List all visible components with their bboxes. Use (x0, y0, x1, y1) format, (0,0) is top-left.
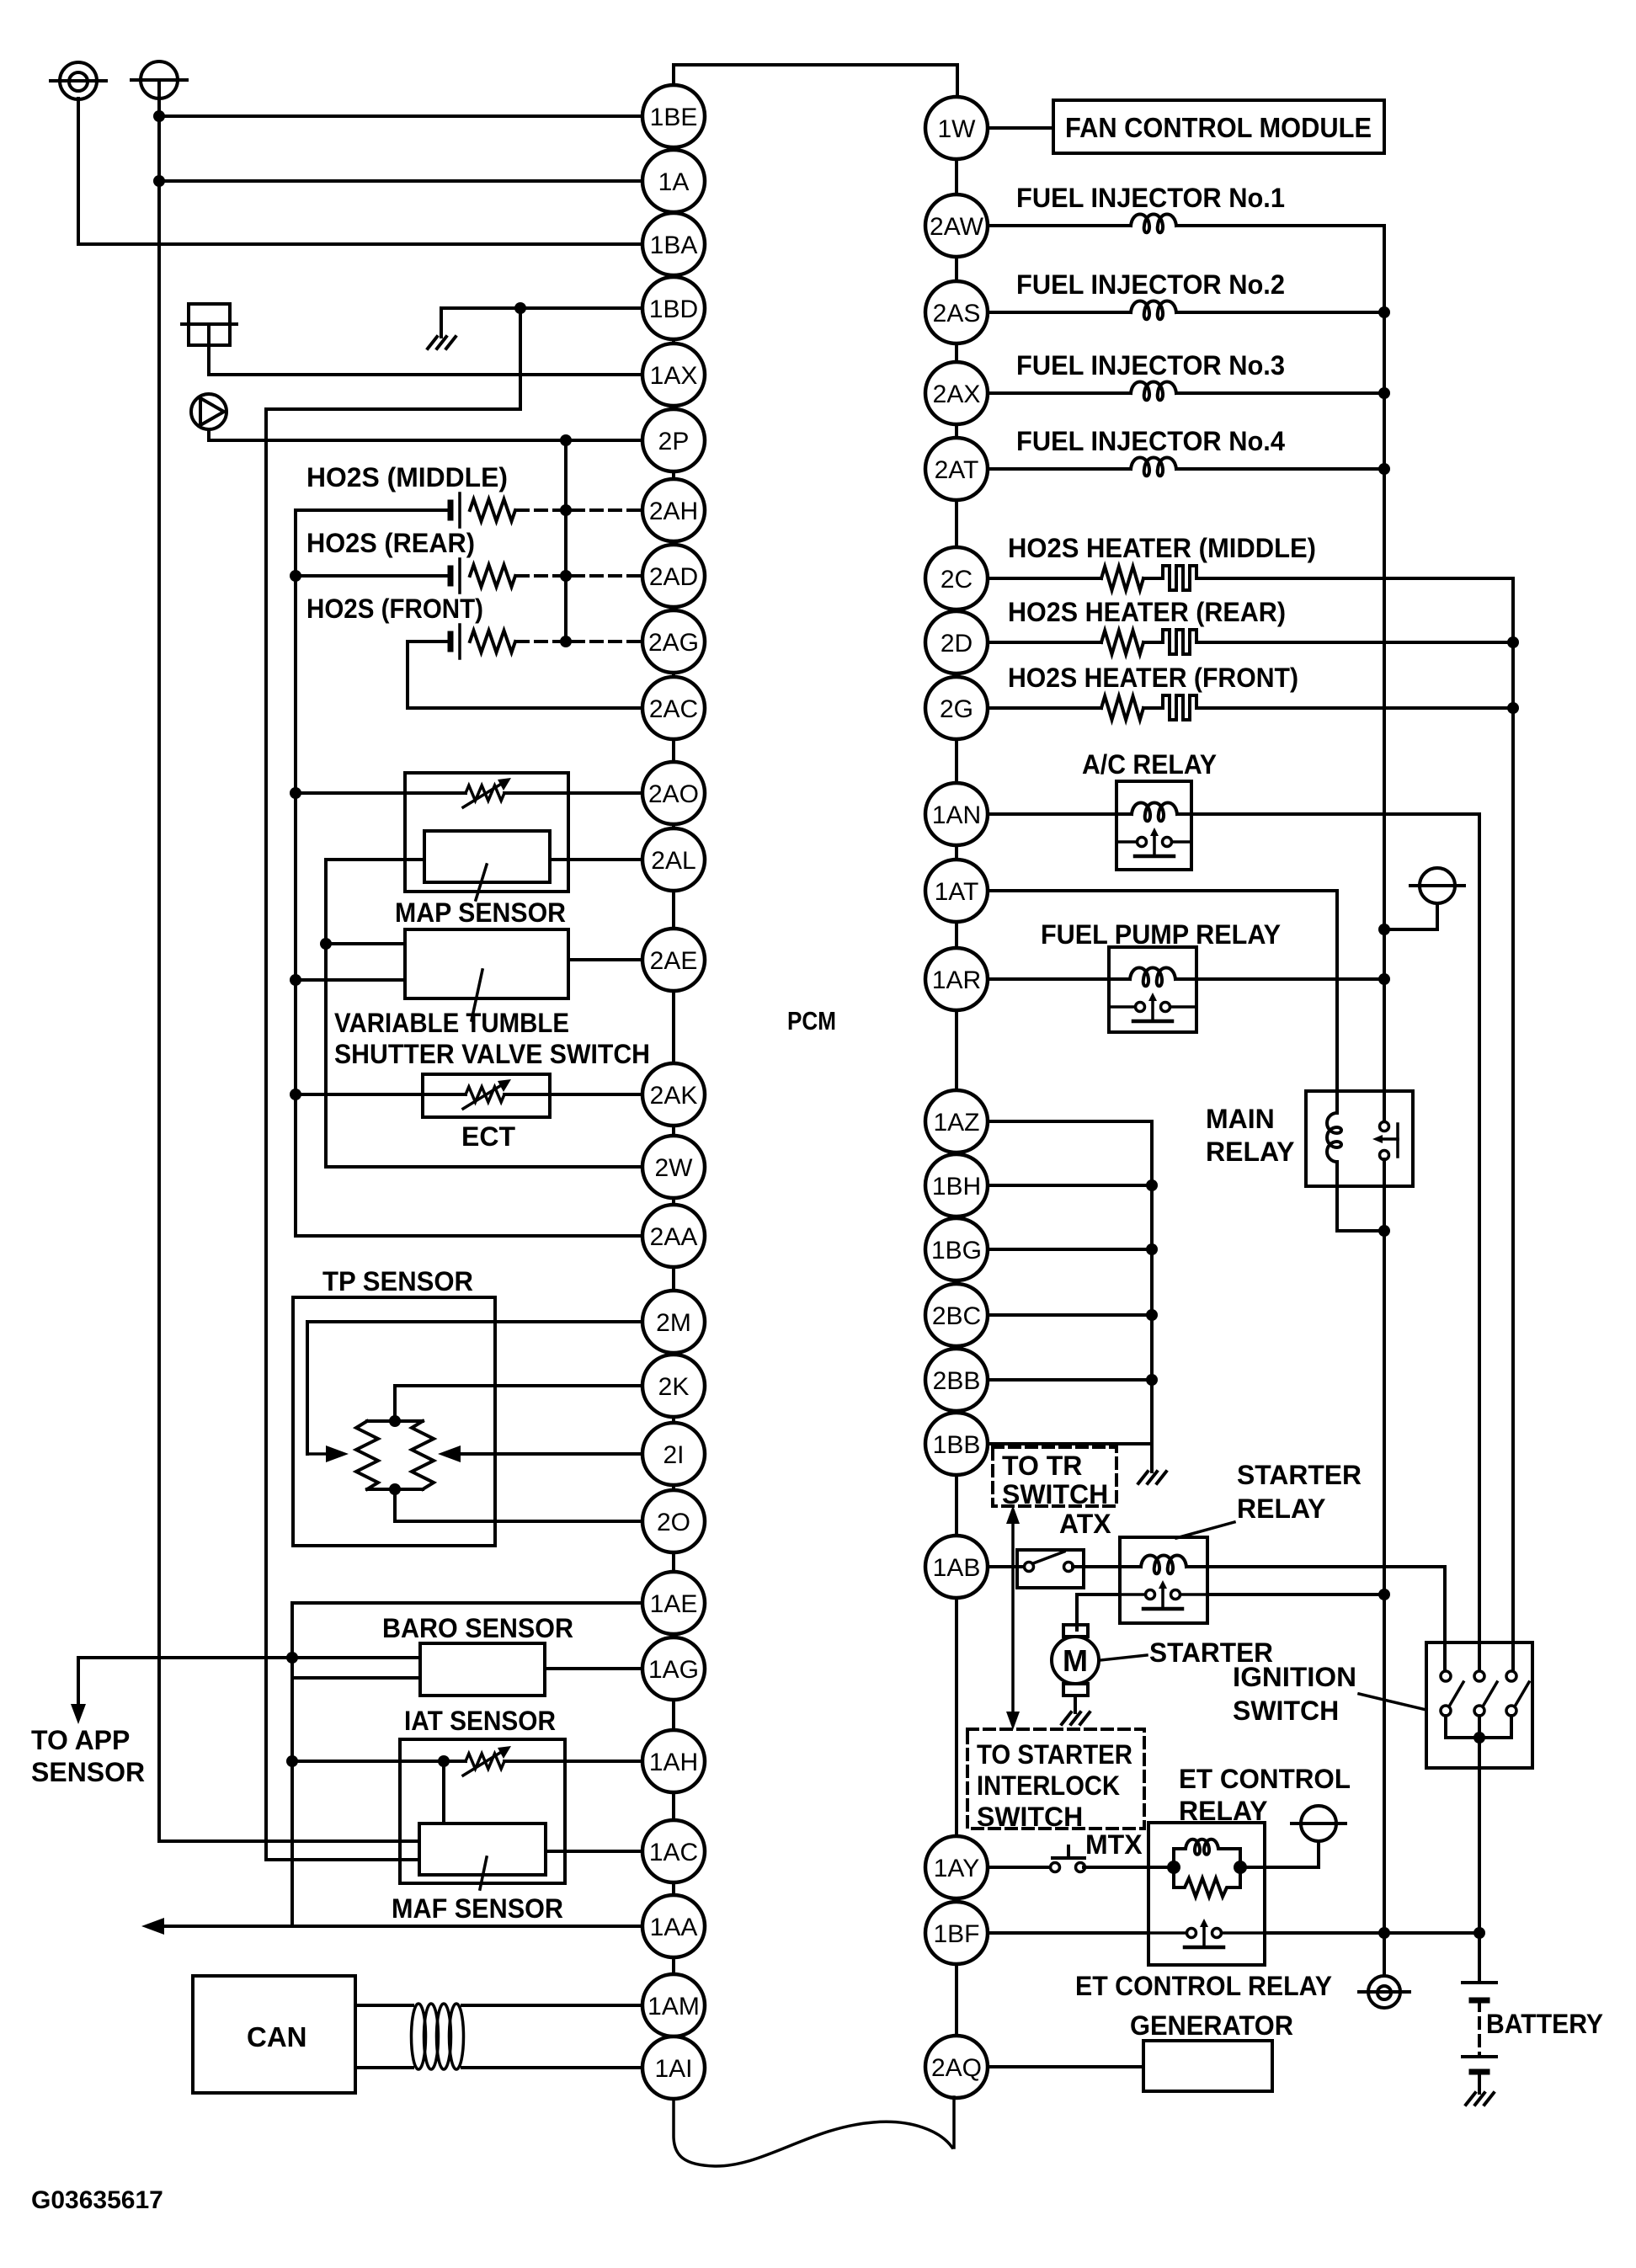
PCM pin 1AI (642, 2036, 705, 2099)
inductor injector 2 (1131, 301, 1176, 320)
wire 2AQ (988, 2065, 1143, 2068)
wire 2AL left (326, 858, 424, 861)
PCM pin 1BF (925, 1902, 988, 1964)
svg-text:1AT: 1AT (935, 878, 979, 906)
svg-text:ET CONTROL RELAY: ET CONTROL RELAY (1075, 1971, 1332, 2001)
svg-text:2AX: 2AX (933, 381, 981, 408)
svg-text:TO TR: TO TR (1002, 1451, 1082, 1481)
node splice 2AH (560, 504, 572, 516)
MAP sensor inner box (424, 831, 550, 882)
variable resistor ECT (466, 1087, 504, 1102)
wire TO APP down (77, 1658, 80, 1709)
wire HO2S rear (296, 574, 450, 578)
wire 1AN left (988, 812, 1132, 816)
wire 2AO left (296, 791, 466, 795)
wire battery ground (1478, 2072, 1481, 2093)
ignition switch pole 2 (1474, 1671, 1484, 1681)
label pointer MAF (480, 1857, 487, 1889)
wiper arrow right (438, 1445, 461, 1462)
wire HO2S signal bus (564, 440, 568, 642)
starter motor M (1052, 1637, 1099, 1684)
PCM pin 2BC (925, 1284, 988, 1346)
PCM pin 1AN (925, 783, 988, 845)
resistor heater 1 (1101, 567, 1143, 590)
svg-text:SHUTTER VALVE SWITCH: SHUTTER VALVE SWITCH (334, 1039, 650, 1069)
svg-text:RELAY: RELAY (1206, 1137, 1295, 1167)
svg-text:2AC: 2AC (649, 695, 698, 723)
wire 2I (461, 1452, 642, 1456)
svg-text:1AR: 1AR (932, 966, 981, 994)
svg-text:2AL: 2AL (651, 847, 695, 875)
svg-text:2P: 2P (658, 428, 690, 455)
wire HO2S front to 2AC (406, 642, 409, 708)
PCM pin 1BH (925, 1154, 988, 1217)
wire 2AL/2W vertical (324, 860, 328, 1167)
svg-text:FUEL PUMP RELAY: FUEL PUMP RELAY (1041, 919, 1281, 950)
svg-text:2I: 2I (663, 1441, 684, 1469)
wire injector 4 left (988, 467, 1131, 471)
wire heater bus (1511, 578, 1515, 1671)
PCM pin 1AB (925, 1536, 988, 1598)
svg-text:ATX: ATX (1059, 1509, 1111, 1539)
wire injector 3 left (988, 391, 1131, 395)
svg-text:1AI: 1AI (654, 2055, 692, 2083)
wire 2AE (568, 958, 642, 961)
svg-text:1AE: 1AE (650, 1590, 698, 1618)
TR switch (1025, 1563, 1034, 1572)
battery cell 1 short plate (1472, 1998, 1487, 2004)
wire starter relay out down (ignition pole 1) (1443, 1567, 1447, 1671)
wire heater 3 mid (1143, 706, 1163, 710)
svg-text:1A: 1A (658, 168, 690, 196)
relay coil ET (1174, 1839, 1240, 1867)
PCM pin 2AA (642, 1205, 705, 1267)
svg-text:SWITCH: SWITCH (1233, 1696, 1339, 1726)
VTSS box (405, 929, 568, 998)
svg-text:1BE: 1BE (650, 104, 698, 131)
PCM pin 1BB (925, 1413, 988, 1475)
power symbol P1 (double circle) (60, 62, 97, 99)
wire contact to starter motor (1077, 1593, 1120, 1596)
wire 1AE down (290, 1603, 294, 1926)
node splice injector bus 2 (1378, 306, 1390, 318)
variable resistor MAP (466, 785, 504, 801)
svg-text:1AZ: 1AZ (933, 1109, 979, 1137)
connector symbol J1 (square) (189, 304, 230, 345)
TP resistor right zigzag (412, 1421, 434, 1489)
node splice 1BF/battery (1473, 1927, 1485, 1939)
PCM pin 2AW (925, 194, 988, 257)
PCM pin 2G (925, 677, 988, 739)
wire 2O (395, 1520, 642, 1523)
resistor heater 2 (1101, 631, 1143, 654)
wire 1AR left (988, 977, 1130, 981)
PCM pin 1BG (925, 1218, 988, 1280)
wire 1BF left (988, 1931, 1148, 1935)
PCM pin 2AO (642, 762, 705, 824)
svg-text:FUEL INJECTOR No.2: FUEL INJECTOR No.2 (1016, 269, 1285, 300)
svg-text:2AK: 2AK (650, 1082, 698, 1110)
battery cell 2 short plate (1472, 2069, 1487, 2075)
svg-text:1AG: 1AG (648, 1656, 699, 1684)
PCM pin 2AK (642, 1063, 705, 1126)
svg-text:HO2S HEATER (FRONT): HO2S HEATER (FRONT) (1008, 663, 1298, 693)
svg-text:FUEL INJECTOR No.1: FUEL INJECTOR No.1 (1016, 183, 1285, 213)
svg-text:1BA: 1BA (650, 232, 698, 259)
svg-text:1BF: 1BF (933, 1920, 979, 1948)
label pointer VTSS (472, 970, 482, 1020)
wire 1AG (545, 1667, 642, 1670)
svg-text:2D: 2D (941, 630, 973, 658)
ignition switch pole 3 (1506, 1671, 1516, 1681)
PCM pin 2I (642, 1423, 705, 1485)
svg-text:1BH: 1BH (932, 1173, 981, 1201)
node splice ET coil left (1167, 1861, 1180, 1874)
svg-text:2G: 2G (940, 695, 973, 723)
node splice TO APP (286, 1652, 298, 1664)
wire 1BF right (1265, 1931, 1479, 1935)
label pointer MAP (476, 865, 487, 900)
wire 1BD net down (519, 308, 522, 409)
svg-text:1W: 1W (938, 115, 977, 143)
wire starter relay out (1186, 1565, 1445, 1568)
svg-text:1AB: 1AB (933, 1554, 981, 1582)
heater element 3 (1163, 695, 1196, 720)
TR switch box (1017, 1550, 1084, 1588)
node splice 1BD (514, 302, 526, 314)
wire P1 down to 1BA row (77, 98, 80, 244)
TO TR SWITCH dashed box (993, 1447, 1116, 1506)
svg-text:1AX: 1AX (650, 362, 698, 390)
svg-text:1AC: 1AC (649, 1839, 698, 1866)
PCM pin 2K (642, 1355, 705, 1417)
wire 1BD net to MAF sensor (266, 1858, 419, 1861)
PCM pin 1BE (642, 85, 705, 147)
relay coil A/C (1132, 803, 1177, 822)
wire HO2S front (408, 640, 450, 643)
PCM pin 2AD (642, 545, 705, 607)
svg-text:M: M (1063, 1643, 1088, 1678)
wire PCM top (674, 65, 957, 96)
svg-text:MAP SENSOR: MAP SENSOR (395, 897, 566, 928)
wire 1AH right (504, 1760, 642, 1763)
svg-text:2K: 2K (658, 1373, 690, 1401)
wire PCM bottom squiggle (674, 2099, 952, 2166)
svg-text:2C: 2C (941, 566, 973, 594)
twisted pair coil (412, 2004, 426, 2069)
wire 1BD (441, 306, 642, 310)
PCM pin 2M (642, 1291, 705, 1353)
wire 1BB (988, 1442, 1152, 1445)
wire VTSS upper (326, 942, 405, 945)
label pointer starter relay (1176, 1522, 1234, 1538)
svg-text:2BB: 2BB (933, 1367, 981, 1395)
wire P2 vertical bus down to MAF row (157, 98, 161, 1841)
PCM pin 1AR (925, 948, 988, 1010)
relay contact starter (1120, 1593, 1150, 1596)
svg-text:2M: 2M (656, 1309, 691, 1337)
inductor injector 1 (1131, 215, 1176, 233)
svg-text:2AH: 2AH (649, 498, 698, 525)
battery cell 1 long plate (1463, 1981, 1496, 1984)
MAIN relay box (1306, 1091, 1413, 1186)
starter motor flange top (1063, 1625, 1088, 1637)
wire 2AK left (296, 1093, 466, 1096)
svg-text:HO2S HEATER (MIDDLE): HO2S HEATER (MIDDLE) (1008, 533, 1316, 563)
wire 1BD net left (266, 407, 520, 411)
svg-text:SWITCH: SWITCH (1002, 1479, 1108, 1509)
wire 1AI (462, 2066, 642, 2069)
wire contact to bus (1207, 1593, 1384, 1596)
PCM pin 1BA (642, 213, 705, 275)
wire 2AK right (504, 1093, 642, 1096)
svg-text:MTX: MTX (1085, 1829, 1143, 1860)
wire 2M branch down (306, 1322, 309, 1454)
wire P4 to bus (1384, 928, 1437, 931)
wire BARO lower (292, 1676, 420, 1680)
svg-text:2AW: 2AW (930, 213, 984, 241)
svg-text:FUEL INJECTOR No.4: FUEL INJECTOR No.4 (1016, 426, 1285, 456)
svg-text:ET CONTROL: ET CONTROL (1179, 1764, 1351, 1794)
wire 1BH (988, 1184, 1152, 1187)
svg-text:SENSOR: SENSOR (31, 1757, 145, 1787)
wire 1BE (159, 114, 642, 118)
node splice VTSS lower (290, 974, 301, 986)
svg-text:CAN: CAN (247, 2021, 307, 2052)
GENERATOR box (1143, 2041, 1272, 2091)
wire heater 3 left (988, 706, 1101, 710)
inductor injector 3 (1131, 382, 1176, 401)
node splice group 2BB (1146, 1374, 1158, 1386)
svg-text:2AT: 2AT (935, 456, 979, 484)
PCM pin 2AH (642, 479, 705, 541)
node splice injector bus 4 (1378, 463, 1390, 475)
node splice group 2BC (1146, 1309, 1158, 1321)
wire injector 4 right (1176, 467, 1384, 471)
starter motor flange bottom (1063, 1684, 1088, 1696)
wire 2K branch down (393, 1386, 397, 1421)
wire 1BG (988, 1248, 1152, 1251)
svg-text:1AA: 1AA (650, 1914, 698, 1941)
svg-text:STARTER: STARTER (1237, 1460, 1362, 1490)
PCM pin 2AX (925, 362, 988, 424)
double arrow TR/interlock (1011, 1515, 1015, 1720)
wire heater 2 mid (1143, 641, 1163, 644)
wire heater 1 left (988, 577, 1101, 580)
node splice group 1BH (1146, 1179, 1158, 1191)
node splice TP top (389, 1415, 401, 1427)
PCM pin 2D (925, 611, 988, 673)
wire CAN low (355, 2066, 413, 2069)
ground G4 (1466, 2093, 1475, 2105)
TP resistor bottom bar (367, 1488, 423, 1491)
svg-text:GENERATOR: GENERATOR (1130, 2010, 1293, 2041)
wire bus starter to 1BF (1383, 1597, 1386, 1933)
resistor HO2S front (470, 631, 515, 652)
node splice bus/P4 (1378, 924, 1390, 935)
node splice 1BF/bus (1378, 1927, 1390, 1939)
svg-text:FAN CONTROL MODULE: FAN CONTROL MODULE (1065, 112, 1372, 143)
arrow TO APP (71, 1704, 86, 1724)
svg-text:A/C RELAY: A/C RELAY (1082, 749, 1217, 780)
power symbol P6 (double circle) (1368, 1976, 1400, 2008)
node splice injector bus 3 (1378, 387, 1390, 399)
wire 1BA (78, 242, 642, 246)
PCM pin 2AE (642, 929, 705, 991)
svg-text:ECT: ECT (461, 1121, 515, 1152)
relay contact fuel pump (1109, 1005, 1140, 1009)
power symbol P4 (1420, 868, 1455, 903)
node splice 2AG (560, 636, 572, 647)
node splice 2AD (560, 570, 572, 582)
svg-text:MAF SENSOR: MAF SENSOR (392, 1893, 563, 1924)
PCM pin 1AM (642, 1974, 705, 2036)
PCM pin 2BB (925, 1349, 988, 1411)
relay contact ET (1148, 1931, 1192, 1935)
wire CAN high (355, 2004, 413, 2007)
node splice ignition common (1473, 1732, 1485, 1744)
node splice group 1BG (1146, 1243, 1158, 1255)
wire 2AL (550, 858, 642, 861)
node splice on P2 bus at 1A row (153, 175, 165, 187)
resistor ET relay (1174, 1867, 1240, 1897)
svg-text:HO2S HEATER (REAR): HO2S HEATER (REAR) (1008, 597, 1286, 627)
resistor heater 3 (1101, 696, 1143, 720)
FUEL PUMP relay box (1109, 947, 1196, 1032)
relay coil fuel pump (1130, 968, 1175, 987)
svg-text:1BG: 1BG (931, 1237, 982, 1264)
label pointer starter motor (1100, 1655, 1147, 1660)
PCM pin 2W (642, 1136, 705, 1198)
node splice VTSS upper (320, 938, 332, 950)
svg-text:1AM: 1AM (647, 1993, 700, 2020)
TP sensor box (293, 1297, 495, 1546)
FAN CONTROL MODULE box (1053, 100, 1384, 153)
wire 2P (209, 439, 642, 442)
PCM pin 2AT (925, 438, 988, 500)
arrow 1AA left (141, 1918, 164, 1935)
wire starter motor ground (1074, 1696, 1077, 1712)
wire 1AT (988, 889, 1337, 892)
wire TO APP / BARO upper (78, 1656, 420, 1659)
wire 1AM (462, 2004, 642, 2007)
relay contact A/C (1116, 840, 1142, 844)
wire group bus (1150, 1121, 1154, 1472)
label pointer ignition switch (1359, 1694, 1426, 1710)
A/C relay box (1116, 781, 1191, 870)
wire 1A (159, 179, 642, 183)
svg-text:2O: 2O (657, 1509, 690, 1536)
node splice starter/bus (1378, 1589, 1390, 1600)
PCM pin 1AG (642, 1637, 705, 1700)
svg-text:2AQ: 2AQ (931, 2054, 982, 2082)
ignition switch common bar (1446, 1736, 1511, 1739)
wire 1AX (209, 373, 642, 376)
svg-text:G03635617: G03635617 (31, 2186, 163, 2214)
wire injector 2 left (988, 311, 1131, 314)
node splice 2AK (290, 1089, 301, 1100)
node splice heater bus 3 (1507, 702, 1519, 714)
wire J1 vertical (207, 324, 210, 375)
wire heater 1 right (1196, 577, 1513, 580)
TP resistor left zigzag (356, 1421, 378, 1489)
wire 2AO right (504, 791, 642, 795)
PCM pin 2AL (642, 828, 705, 891)
wire 1AE (292, 1601, 642, 1605)
node splice 2P bus (560, 434, 572, 446)
wire 2W (326, 1165, 642, 1169)
wire 1AT down (1335, 891, 1339, 1091)
wire MAF upper input (159, 1839, 419, 1843)
CAN box (193, 1976, 355, 2093)
svg-text:SWITCH: SWITCH (977, 1802, 1083, 1832)
wire injector 1 right (1176, 224, 1384, 227)
node splice coil/bus (1378, 1225, 1390, 1237)
svg-text:2AD: 2AD (649, 563, 698, 591)
svg-text:RELAY: RELAY (1237, 1493, 1326, 1524)
svg-text:TP SENSOR: TP SENSOR (322, 1266, 473, 1296)
PCM pin 1BD (642, 277, 705, 339)
battery cell HO2S rear (448, 568, 454, 583)
node splice 1AH mid (438, 1755, 450, 1767)
resistor HO2S middle (470, 499, 515, 521)
heater element 1 (1163, 566, 1196, 590)
svg-text:1BB: 1BB (933, 1431, 981, 1459)
wire VTSS lower (296, 978, 405, 982)
power symbol P2 (141, 61, 178, 98)
svg-text:PCM: PCM (787, 1006, 836, 1036)
TO STARTER INTERLOCK SWITCH dashed box (967, 1729, 1144, 1829)
wire 1AC (546, 1850, 642, 1853)
svg-text:2AO: 2AO (648, 780, 699, 808)
relay contact main (1380, 1122, 1389, 1131)
battery cell HO2S middle (448, 503, 454, 518)
svg-text:VARIABLE TUMBLE: VARIABLE TUMBLE (334, 1008, 569, 1038)
node splice ET coil right (1234, 1861, 1247, 1874)
svg-text:HO2S (MIDDLE): HO2S (MIDDLE) (306, 462, 508, 492)
svg-text:1BD: 1BD (649, 295, 698, 323)
svg-text:TO APP: TO APP (31, 1725, 130, 1755)
PCM pin 1AH (642, 1730, 705, 1792)
wire HO2S left bus (294, 510, 297, 1236)
wire 1BD net long vertical (264, 409, 268, 1860)
wire heater 2 right (1196, 641, 1513, 644)
wire bus 1BF to P6 (1383, 1933, 1386, 1976)
wire 1AZ (988, 1120, 1152, 1123)
ECT box (423, 1074, 550, 1117)
svg-text:IGNITION: IGNITION (1233, 1662, 1356, 1692)
PCM pin 1AA (642, 1895, 705, 1957)
wire 1AN right (1177, 812, 1479, 816)
wiper arrow left (307, 1452, 328, 1456)
svg-text:MAIN: MAIN (1206, 1104, 1275, 1134)
wire 2AH dashed (517, 508, 642, 512)
svg-text:TO STARTER: TO STARTER (977, 1739, 1132, 1770)
wire 2O branch (393, 1489, 397, 1521)
wire main relay coil out (1337, 1186, 1384, 1231)
ground G1 (428, 337, 437, 349)
wire 1AN down (ignition pole 2) (1478, 814, 1481, 1671)
wire injector bus (1383, 226, 1386, 1122)
PCM pin 2O (642, 1490, 705, 1552)
wire heater 3 right (1196, 706, 1513, 710)
BARO sensor box (420, 1643, 545, 1696)
PCM pin 2AG (642, 610, 705, 673)
node splice HO2S rear (290, 570, 301, 582)
svg-text:HO2S (FRONT): HO2S (FRONT) (306, 594, 483, 624)
svg-text:2W: 2W (655, 1154, 694, 1182)
PCM pin 1A (642, 150, 705, 212)
